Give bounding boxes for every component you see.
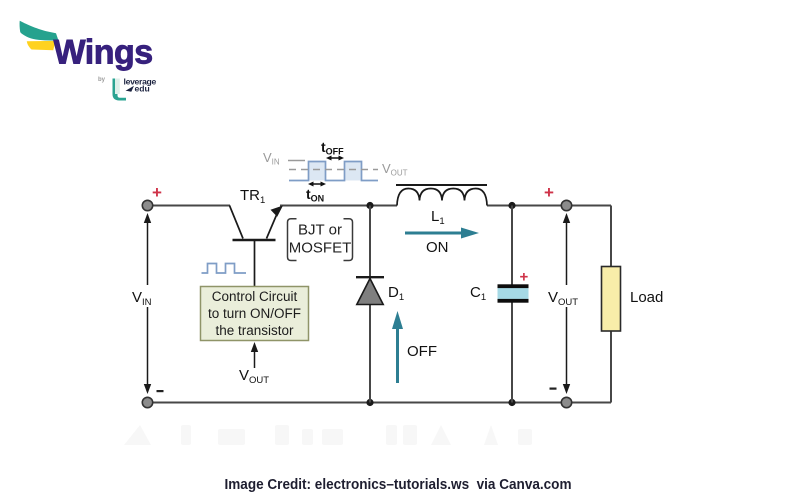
faint watermark row (124, 425, 532, 445)
svg-text:Load: Load (630, 289, 663, 306)
svg-text:edu: edu (135, 83, 150, 93)
svg-text:BJT or: BJT or (298, 222, 342, 239)
svg-text:+: + (544, 183, 554, 202)
wire right lower (610, 331, 612, 403)
node minus left (157, 390, 164, 392)
node minus right (550, 388, 557, 390)
waveform pulse fill 2 (345, 162, 362, 181)
terminal node bottom-left (142, 397, 152, 407)
diode D1 (356, 277, 384, 304)
transistor collector lead (230, 206, 244, 239)
svg-text:Control Circuit: Control Circuit (212, 289, 298, 304)
svg-text:by: by (98, 77, 106, 83)
svg-text:ON: ON (426, 239, 449, 256)
VIN label (131, 285, 163, 307)
logo teal swoosh (20, 21, 59, 41)
VIN measure arrow (144, 213, 151, 394)
node junction diode top (366, 202, 373, 209)
VOUT label (547, 285, 586, 307)
capacitor C1 (498, 284, 529, 302)
OFF arrow (392, 311, 403, 383)
node junction diode bottom (366, 399, 373, 406)
logo edu plane icon (126, 86, 135, 92)
control circuit box (201, 287, 309, 341)
waveform tON arrow (308, 182, 326, 187)
terminal node bottom-right (561, 397, 571, 407)
wire bottom (150, 402, 611, 404)
svg-text:+: + (520, 269, 529, 286)
waveform tOFF arrow (326, 156, 344, 161)
node junction cap top (508, 202, 515, 209)
wire top left (150, 205, 230, 207)
capacitor C1 branch wire upper (511, 206, 513, 286)
capacitor C1 branch wire lower (511, 302, 513, 403)
waveform VIN level line (288, 160, 305, 162)
load resistor (602, 267, 621, 332)
svg-text:OFF: OFF (407, 343, 437, 360)
terminal node top-right (561, 200, 571, 210)
BJT or MOSFET bracket note (288, 219, 353, 261)
transistor TR1 (230, 206, 284, 288)
svg-text:+: + (152, 183, 162, 202)
inductor L1 (396, 185, 487, 206)
waveform square wave (289, 162, 378, 181)
ON arrow (405, 228, 479, 239)
wire top middle (280, 205, 397, 207)
VOUT measure arrow (563, 213, 570, 394)
svg-text:MOSFET: MOSFET (289, 240, 352, 257)
wire top right (487, 205, 611, 207)
control box VOUT input arrow (251, 342, 258, 368)
svg-text:Image Credit: electronics–tuto: Image Credit: electronics–tutorials.ws v… (225, 477, 572, 493)
logo leverage edu mark (113, 79, 127, 101)
svg-text:to turn ON/OFF: to turn ON/OFF (208, 306, 301, 321)
transistor base bar (233, 239, 276, 242)
svg-text:the transistor: the transistor (215, 323, 294, 338)
logo yellow swoosh (27, 41, 56, 50)
wire right upper (610, 206, 612, 267)
terminal node top-left (142, 200, 152, 210)
waveform pulse fill 1 (309, 162, 326, 181)
transistor emitter lead with arrow (267, 215, 277, 239)
waveform group (263, 139, 408, 204)
logo Wings by Leverage Edu (20, 21, 157, 101)
waveform VOUT dashed level line (289, 169, 378, 171)
clock waveform symbol (202, 264, 247, 274)
diode D1 branch wire (369, 206, 371, 403)
svg-text:Wings: Wings (54, 34, 153, 72)
node junction cap bottom (508, 399, 515, 406)
transistor base lead (254, 241, 256, 287)
